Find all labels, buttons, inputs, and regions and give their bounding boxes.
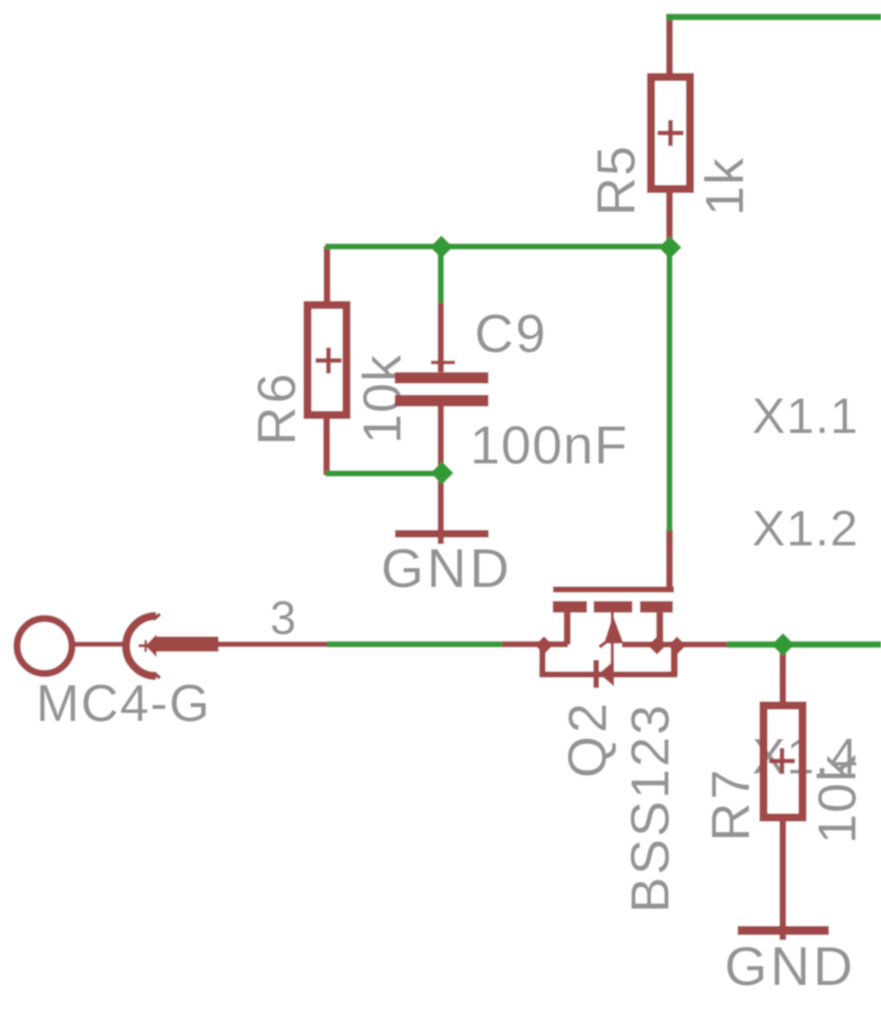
- svg-text:R6: R6: [247, 370, 307, 445]
- svg-text:10k: 10k: [808, 754, 868, 844]
- svg-text:R7: R7: [701, 766, 761, 841]
- svg-text:X1.2: X1.2: [752, 501, 859, 557]
- svg-text:Q2: Q2: [558, 700, 618, 778]
- svg-text:X1.1: X1.1: [752, 388, 859, 444]
- svg-text:R5: R5: [587, 145, 647, 216]
- svg-text:1k: 1k: [695, 157, 755, 216]
- svg-text:3: 3: [270, 591, 296, 644]
- svg-text:GND: GND: [381, 537, 512, 599]
- svg-text:C9: C9: [475, 304, 548, 364]
- svg-text:MC4-G: MC4-G: [36, 675, 211, 733]
- svg-text:100nF: 100nF: [470, 416, 628, 476]
- svg-text:BSS123: BSS123: [621, 703, 681, 913]
- svg-text:GND: GND: [725, 935, 856, 997]
